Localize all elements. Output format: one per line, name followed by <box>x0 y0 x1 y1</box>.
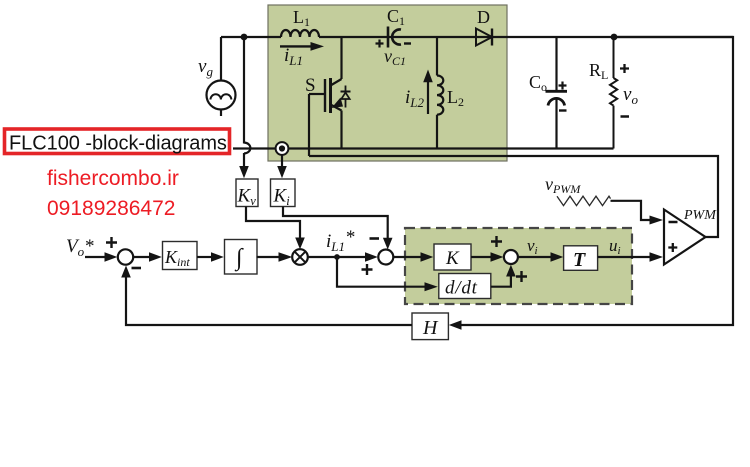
wire H to summer 1 <box>126 276 412 325</box>
wire S gate drop <box>308 94 310 156</box>
current sensor on rail <box>276 142 289 155</box>
label plus at summer 1 <box>106 237 117 248</box>
wire Kv to multiplier <box>246 207 300 240</box>
node A top junction <box>241 34 248 41</box>
source vg <box>207 37 236 116</box>
transistor S (IGBT with diode) <box>309 37 351 149</box>
svg-text:Vo*: Vo* <box>66 236 94 259</box>
wire vg sense drop with hop over rail <box>244 37 250 169</box>
label RL <box>589 60 608 82</box>
node C on current ref wire <box>334 254 340 260</box>
watermark fishercombo.ir <box>47 167 179 190</box>
label ui <box>609 236 621 257</box>
label S <box>305 75 316 96</box>
wire Ki to summer 2 <box>283 207 388 240</box>
feedback H box <box>412 313 448 340</box>
wire vPWM to comparator minus input <box>611 201 653 220</box>
label iL2 <box>405 87 425 110</box>
capacitor Co <box>546 37 568 149</box>
label vg <box>198 56 213 79</box>
integrator box <box>225 240 258 275</box>
svg-text:S: S <box>305 75 316 96</box>
wire Vo* input arrow <box>85 252 117 262</box>
controller shaded dashed box <box>405 228 632 304</box>
label D <box>477 7 490 27</box>
inductor L1 <box>281 30 319 37</box>
label iL1* <box>326 227 355 254</box>
wire bottom rail <box>233 147 614 149</box>
gain Kint box <box>163 242 198 270</box>
arrow iL1 <box>280 42 324 51</box>
d/dt box <box>439 274 491 299</box>
capacitor C1 <box>388 27 401 48</box>
label Vo* reference <box>66 236 94 259</box>
sawtooth vPWM waveform <box>557 196 611 205</box>
svg-text:iL1*: iL1* <box>326 227 355 254</box>
label vPWM <box>545 174 581 196</box>
wire summer3 to T <box>518 252 563 262</box>
arrow iL2 <box>423 70 433 115</box>
gain T box <box>564 246 598 271</box>
watermark red box FLC100 <box>5 129 230 155</box>
label C1 <box>387 6 405 28</box>
svg-text:D: D <box>477 7 490 27</box>
summer 1 <box>118 249 133 264</box>
watermark phone number <box>47 197 175 220</box>
wire integrator to multiplier <box>257 252 293 262</box>
wire d/dt to summer 3 <box>491 275 511 287</box>
label PWM <box>683 208 717 223</box>
diode D <box>476 29 492 46</box>
gain Kv box <box>236 179 258 208</box>
label minus at summer 2 <box>370 237 380 240</box>
wire T to PWM comparator <box>598 252 663 262</box>
wire summer2 to K <box>393 252 433 262</box>
label iL1 <box>284 45 303 68</box>
wire top rail <box>221 36 733 38</box>
summer 3 <box>504 250 518 264</box>
svg-text:H: H <box>422 317 439 339</box>
comparator PWM <box>664 210 706 265</box>
label Co <box>529 72 547 94</box>
svg-text:fishercombo.ir: fishercombo.ir <box>47 167 179 190</box>
label vC1 <box>384 46 406 68</box>
label plus below summer 3 <box>516 271 527 282</box>
svg-text:Co: Co <box>529 72 547 94</box>
label +/- of C1 <box>376 40 412 48</box>
resistor RL <box>610 37 617 149</box>
inductor L2 <box>437 37 443 149</box>
label L2 <box>447 87 464 109</box>
svg-text:RL: RL <box>589 60 608 82</box>
svg-text:d/dt: d/dt <box>445 278 478 299</box>
label vo <box>623 84 638 107</box>
multiplier <box>292 249 308 265</box>
label L1 <box>293 7 310 29</box>
svg-text:vg: vg <box>198 56 213 79</box>
label vi <box>527 236 538 257</box>
wire node to d/dt <box>337 257 427 287</box>
svg-text:09189286472: 09189286472 <box>47 197 175 220</box>
gain K box <box>434 244 471 270</box>
gain Ki box <box>271 179 296 208</box>
wire multiplier to summer 2 <box>307 252 378 262</box>
svg-text:vPWM: vPWM <box>545 174 581 196</box>
power stage shaded box <box>268 5 507 161</box>
wire sensor to Ki <box>281 155 283 169</box>
wire vo feedback right side down to H <box>459 37 733 325</box>
node B output junction <box>611 34 618 41</box>
wire summer1 to Kint <box>133 252 162 262</box>
label plus at summer 3 <box>491 236 502 247</box>
summer 2 <box>378 250 393 265</box>
svg-text:PWM: PWM <box>683 208 717 223</box>
svg-text:FLC100 -block-diagrams: FLC100 -block-diagrams <box>9 133 227 155</box>
label plus at summer 2 <box>362 264 373 275</box>
label +/- of vo <box>620 64 629 117</box>
svg-text:T: T <box>573 249 586 271</box>
wire Kint to integrator <box>197 252 224 262</box>
wire PWM output to gate line <box>309 156 718 237</box>
svg-text:K: K <box>445 248 460 269</box>
label +/- of Co <box>559 82 567 111</box>
svg-text:vo: vo <box>623 84 638 107</box>
wire K to summer 3 <box>471 252 503 262</box>
label minus at summer 1 <box>132 267 142 270</box>
svg-text:∫: ∫ <box>234 245 244 272</box>
